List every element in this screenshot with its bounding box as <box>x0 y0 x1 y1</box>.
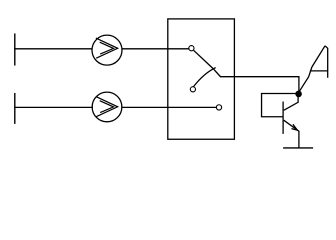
wire from G2 to contact K2 <box>122 106 217 108</box>
junction dot <box>295 91 302 98</box>
transistor Q1 emitter <box>284 120 299 148</box>
switch box <box>168 19 235 139</box>
chevron outer of G2 <box>96 97 118 117</box>
terminal T1 (top-left input) <box>14 33 16 65</box>
wire from G1 to switch contact K1 <box>122 48 189 50</box>
antenna triangle crossbar <box>310 70 328 72</box>
chevron outer of G1 <box>96 38 118 58</box>
source circle G1 <box>92 35 122 65</box>
switch swing arc <box>193 68 215 87</box>
wire from T1 to source circle G1 <box>14 48 92 50</box>
ground bar <box>283 147 313 149</box>
wire from T2 to source circle G2 <box>14 106 93 108</box>
antenna triangle left side <box>312 46 325 67</box>
switch lever <box>194 50 221 76</box>
contact K2 (bottom wire end) <box>216 105 221 110</box>
antenna triangle right side <box>325 46 328 78</box>
transistor Q1 base bar <box>282 102 284 134</box>
emitter arrowhead <box>292 124 298 130</box>
feedback loop wire (junction to base) <box>262 94 299 117</box>
terminal T2 (bottom-left input) <box>14 93 16 124</box>
contact K3 (lower idle contact) <box>190 87 195 92</box>
chevron inner of G2 <box>100 101 114 113</box>
contact K1 (top, selected) <box>189 46 194 51</box>
antenna lead from junction <box>299 67 312 91</box>
chevron inner of G1 <box>100 42 114 54</box>
source circle G2 <box>92 92 122 122</box>
transistor Q1 collector <box>284 96 298 110</box>
wire from switch to junction <box>220 77 299 94</box>
